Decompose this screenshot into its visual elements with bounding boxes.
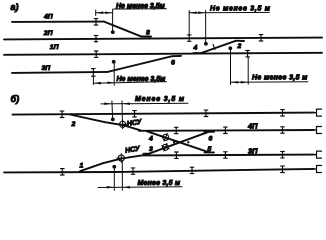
insulated joint on 4P at x=176.2 <box>174 127 178 133</box>
dimension A3 right tick and extension up to fouling dot <box>113 62 115 85</box>
fouling point dot at turnout 1 <box>112 165 116 169</box>
dimension A4 left arrow <box>231 81 239 84</box>
svg-text:Менее 3,5 м: Менее 3,5 м <box>138 180 181 187</box>
insulated joint on B1 at x=282.5 <box>281 166 285 172</box>
fouling point dot at turnout 6 <box>112 60 116 64</box>
dimension B-top right arrow (pointing left at tick) <box>122 102 130 105</box>
track 2P line <box>4 38 322 40</box>
svg-text:Менее 3,5 м: Менее 3,5 м <box>135 96 185 103</box>
svg-text:2: 2 <box>71 121 76 128</box>
track 3P line (section b) <box>143 154 314 157</box>
fouling point dot at turnout 8 <box>111 30 115 34</box>
dimension A3 line (3P joint to fouling point of turnout 6) <box>93 82 166 84</box>
insulated joint on 3P at x=225.4 <box>224 152 228 158</box>
svg-text:2: 2 <box>237 43 242 50</box>
insulated joint on B1 at x=62.3 <box>61 169 65 175</box>
frog point dot left of crossing <box>173 141 175 143</box>
frog point dot right of crossing <box>187 141 189 143</box>
dimension A4 left extension from fouling dot <box>230 48 232 84</box>
dimension B-top line <box>101 102 188 105</box>
NSU marker circle on crossover lower leg <box>160 142 171 153</box>
svg-text:Не менее 3,5 м: Не менее 3,5 м <box>252 74 308 81</box>
turnout 2 diverging track from T1 down to 4P <box>70 115 140 131</box>
dimension A1 extension line down to fouling dot <box>112 9 114 30</box>
dimension A4 line (turnout 4 fouling point to 1P joint) <box>231 81 308 84</box>
dimension A3 right arrow <box>107 81 115 84</box>
svg-text:6: 6 <box>209 136 213 143</box>
fouling point dot at turnout 2 <box>111 118 115 122</box>
dimension B-top left extension down to fouling dot <box>111 101 114 118</box>
insulated joint on T1 at x=134.5 <box>133 111 137 117</box>
dimension A4 right extension from 1P joint <box>247 57 249 84</box>
dimension A3 left extension from 3P joint <box>92 76 94 84</box>
insulated joint on B1 at x=192 <box>190 167 194 173</box>
insulated joint on 4P at x=282.5 <box>281 127 285 133</box>
svg-text:б): б) <box>11 94 20 104</box>
svg-text:1: 1 <box>80 163 84 170</box>
dimension A1 line (4P joint to fouling point) <box>96 12 113 14</box>
insulated joint on 3P at x=176.4 <box>175 152 179 158</box>
turnout 8 diverging track from 4P to 2P <box>104 22 151 37</box>
turnout 6 diverging track from 3P to 1P <box>108 56 181 72</box>
track 4P line (section b) <box>139 129 314 132</box>
track B1 bottom approach line <box>4 169 314 173</box>
NSU marker circle on turnout 1 diagonal <box>117 154 126 163</box>
insulated joint on 4P at x=96 <box>94 19 98 25</box>
track 3P line <box>12 72 108 73</box>
insulated joint on 3P at x=282.5 <box>281 152 285 158</box>
svg-text:4П: 4П <box>43 13 53 20</box>
turnout 1 diverging track from B1 up to 3P <box>80 155 145 171</box>
dimension A1 left tick <box>95 10 97 16</box>
dimension A2 right arrow <box>198 11 206 14</box>
svg-text:4П: 4П <box>247 122 258 131</box>
svg-text:3П: 3П <box>42 65 51 72</box>
track 4P right end hook <box>314 127 322 134</box>
track T1 right end hook <box>314 109 322 116</box>
crossover turnout 4 stub on 1P <box>194 52 201 54</box>
insulated joint on 4P at x=225.4 <box>224 127 228 133</box>
dimension A1 left arrow <box>96 11 104 14</box>
track B1 right end hook <box>314 166 322 173</box>
svg-text:3: 3 <box>149 146 153 153</box>
insulated joint on B1 at x=133 <box>131 168 135 174</box>
insulated joint on T1 at x=62 <box>60 111 64 117</box>
fouling point dot at turnout 2 <box>204 42 208 46</box>
insulated joint on 1P at x=96 <box>94 51 98 57</box>
svg-text:3П: 3П <box>248 146 258 155</box>
fouling point dot at turnout 4 <box>228 46 232 50</box>
dimension B-bottom left arrow (pointing right at tick) <box>107 186 115 189</box>
svg-text:Не менее 3,5 м: Не менее 3,5 м <box>210 6 271 13</box>
dimension A2 line <box>189 11 269 13</box>
dimension B-bottom right extension up to NSU circle <box>121 161 123 190</box>
insulated joint on 3P at x=93.3 <box>92 69 96 77</box>
dimension A3 left arrow <box>94 82 102 85</box>
track 3P right end hook <box>314 151 322 158</box>
svg-text:8: 8 <box>146 30 150 37</box>
crossover leg from 4P (turnout 4) down to 3P (turnout 5) <box>147 131 214 152</box>
svg-text:Не менее 3,5м: Не менее 3,5м <box>117 76 167 83</box>
track 1P line <box>4 53 322 55</box>
dimension B-bottom line <box>98 186 182 189</box>
dimension B-bottom left extension up to fouling dot <box>113 167 115 191</box>
dimension B-top left arrow (pointing right at tick) <box>104 103 112 106</box>
crossover diagonal from 1P to 2P <box>200 41 245 54</box>
insulated joint on T1 at x=282.5 <box>281 110 285 116</box>
insulated joint on 1P at x=247.6 <box>246 51 250 57</box>
dimension B-bottom right arrow (pointing left at tick) <box>123 186 131 189</box>
dimension A4 right arrow <box>241 81 249 84</box>
svg-text:5: 5 <box>208 146 212 153</box>
NSU marker circle on turnout 2 diagonal <box>118 120 127 129</box>
insulated joint tick on crossover diagonal <box>213 44 215 49</box>
NSU marker circle on crossover upper leg <box>160 132 171 143</box>
dimension A1 text underline <box>114 8 167 10</box>
svg-text:2П: 2П <box>43 30 53 37</box>
insulated joint on 2P at x=189 <box>187 35 191 41</box>
dimension A2 left arrow <box>189 12 197 15</box>
dimension A2 left extension line with joint on 2P <box>188 11 190 35</box>
track T1 top approach line <box>13 113 315 115</box>
svg-text:а): а) <box>11 2 19 12</box>
track 4P line <box>12 21 104 23</box>
insulated joint on 2P at x=261 <box>259 35 263 41</box>
svg-text:4: 4 <box>148 136 153 143</box>
svg-text:4: 4 <box>193 45 198 52</box>
insulated joint on T1 at x=206 <box>204 110 208 116</box>
insulated joint on 2P at x=96 <box>94 35 98 41</box>
crossover leg from 3P (turnout 3) up to 4P (turnout 6) <box>144 132 215 154</box>
dimension A2 right tick and extension to fouling dot <box>205 10 207 44</box>
dimension B-top right extension down to NSU circle <box>121 101 123 121</box>
svg-text:Не менее 3,5м: Не менее 3,5м <box>116 3 166 10</box>
svg-text:1П: 1П <box>50 44 59 51</box>
dimension A1 right arrow <box>105 11 113 14</box>
svg-text:6: 6 <box>171 60 175 67</box>
